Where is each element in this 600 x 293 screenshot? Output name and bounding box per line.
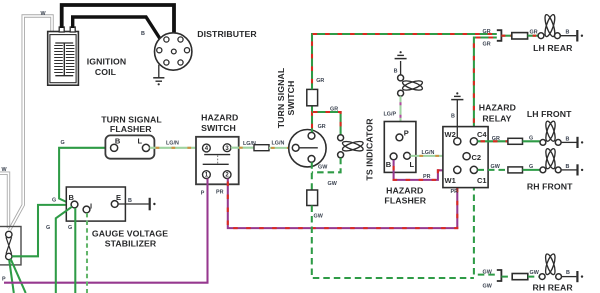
svg-text:PR: PR xyxy=(216,190,224,196)
svg-text:LG/N: LG/N xyxy=(422,150,435,156)
svg-text:G: G xyxy=(52,198,56,204)
svg-text:GW: GW xyxy=(483,269,493,275)
connector (GR inline to LH front) xyxy=(508,138,523,144)
connector (GR inline) xyxy=(512,33,528,39)
svg-text:GW: GW xyxy=(314,213,324,219)
wire GW bracket to connector xyxy=(501,276,512,278)
lamp LH REAR xyxy=(538,14,560,39)
svg-text:G: G xyxy=(529,164,533,170)
svg-text:RELAY: RELAY xyxy=(482,114,511,124)
svg-text:B: B xyxy=(566,136,570,142)
svg-text:GR: GR xyxy=(492,136,500,142)
svg-text:I: I xyxy=(90,202,92,211)
wire GW connector to RH rear lamp xyxy=(528,276,540,278)
ground LH rear xyxy=(577,30,583,42)
fuse xyxy=(6,231,12,259)
svg-text:P: P xyxy=(404,129,409,138)
svg-text:GW: GW xyxy=(491,164,501,170)
svg-text:B: B xyxy=(394,68,398,74)
svg-text:SWITCH: SWITCH xyxy=(201,123,236,133)
wire B LH front lamp to ground xyxy=(561,141,576,143)
svg-text:B: B xyxy=(451,114,455,120)
wire W white from left edge to fuse xyxy=(0,173,9,228)
wire B RH rear lamp to ground xyxy=(562,276,577,278)
hazard switch xyxy=(196,137,239,185)
wire LG stabilizer I down (dashed) xyxy=(86,213,88,293)
connector bracket (two GR into one) xyxy=(497,30,502,41)
svg-text:PR: PR xyxy=(451,189,459,195)
svg-text:GR: GR xyxy=(530,29,538,35)
wire B thick coil to distributor center xyxy=(62,5,174,49)
connector (GR vertical) xyxy=(307,89,318,105)
wire GR relay C4 up and right to bracket xyxy=(474,38,497,138)
wire B LH rear lamp to ground xyxy=(560,35,576,37)
svg-text:GAUGE VOLTAGE: GAUGE VOLTAGE xyxy=(92,229,168,239)
wire GW TS indicator to GW riser xyxy=(312,158,341,173)
ground hazard warning lamp (inverted) xyxy=(395,51,407,58)
ground relay W2 (inverted) xyxy=(451,92,463,99)
ground stabilizer E (bar and dot) xyxy=(150,198,156,211)
svg-text:B: B xyxy=(128,198,132,204)
wire G junction straight down xyxy=(74,208,76,293)
svg-text:P: P xyxy=(2,277,6,283)
wire B hazard warning lamp to ground xyxy=(400,61,402,75)
ground LH front xyxy=(578,137,584,148)
label IGNITION COIL xyxy=(87,56,126,77)
wire B thick coil to distributor side xyxy=(73,17,161,40)
wire LG/N hazard flasher L to relay C2 xyxy=(410,155,463,157)
svg-text:GW: GW xyxy=(483,284,493,290)
label HAZARD SWITCH xyxy=(201,113,238,133)
svg-text:GW: GW xyxy=(530,270,540,276)
wire GW relay C1 down and right to bracket xyxy=(474,174,497,275)
svg-text:B: B xyxy=(566,270,570,276)
lamp RH FRONT xyxy=(540,148,561,173)
svg-text:FLASHER: FLASHER xyxy=(384,196,426,206)
svg-text:W1: W1 xyxy=(445,176,456,185)
wire GR connector up and across top xyxy=(312,34,497,89)
svg-text:G: G xyxy=(46,225,50,231)
svg-text:IGNITION: IGNITION xyxy=(87,56,126,66)
label TURN SIGNAL SWITCH (rotated) xyxy=(276,67,296,128)
svg-text:HAZARD: HAZARD xyxy=(201,113,238,123)
wire PR hazard flasher B to relay W1 xyxy=(394,160,454,180)
svg-text:LG/P: LG/P xyxy=(384,112,397,118)
turn signal switch xyxy=(289,130,326,167)
svg-text:HAZARD: HAZARD xyxy=(386,185,423,195)
wire W white from ignition coil to fuse xyxy=(10,16,53,230)
svg-text:B: B xyxy=(386,160,392,169)
svg-text:GR: GR xyxy=(318,124,326,130)
label GAUGE VOLTAGE STABILIZER xyxy=(92,229,168,249)
wire GW relay C1 to connector xyxy=(478,169,508,171)
svg-text:W2: W2 xyxy=(445,130,456,139)
ground RH rear xyxy=(577,271,583,282)
svg-text:GW: GW xyxy=(328,181,338,187)
wire PR hazard switch 2 to relay W1 xyxy=(228,174,457,229)
svg-text:TURN SIGNAL: TURN SIGNAL xyxy=(276,67,286,128)
lamp RH REAR xyxy=(539,253,561,280)
svg-text:G: G xyxy=(61,140,65,146)
gauge voltage stabilizer xyxy=(66,187,125,221)
svg-text:B: B xyxy=(566,29,570,35)
wire G fuse down-left 1 xyxy=(9,260,14,293)
svg-text:GR: GR xyxy=(483,29,491,35)
svg-text:GR: GR xyxy=(483,41,491,47)
hazard relay xyxy=(443,127,488,188)
wire G fuse to junction (via riser) xyxy=(12,205,71,256)
svg-text:B: B xyxy=(141,31,145,37)
connector (LG/N inline) xyxy=(254,145,269,151)
wire B RH front lamp to ground xyxy=(561,169,576,171)
svg-text:P: P xyxy=(201,191,205,197)
svg-text:B: B xyxy=(69,193,75,202)
svg-text:RH FRONT: RH FRONT xyxy=(527,182,573,192)
ground RH front xyxy=(578,164,584,175)
svg-text:DISTRIBUTER: DISTRIBUTER xyxy=(197,29,257,39)
svg-text:LH REAR: LH REAR xyxy=(533,43,573,53)
svg-text:HAZARD: HAZARD xyxy=(479,103,516,113)
label TURN SIGNAL FLASHER xyxy=(101,114,162,134)
wire G connector to RH front lamp xyxy=(523,169,541,171)
svg-text:SWITCH: SWITCH xyxy=(286,81,296,116)
svg-text:E: E xyxy=(116,193,121,202)
svg-text:C1: C1 xyxy=(477,176,487,185)
svg-text:PR: PR xyxy=(423,174,431,180)
wire LG/N flasher L to hazard switch 4 xyxy=(150,147,203,149)
svg-text:FLASHER: FLASHER xyxy=(110,124,152,134)
svg-text:GW: GW xyxy=(318,164,328,170)
ignition coil xyxy=(48,27,79,85)
svg-text:LG/N: LG/N xyxy=(166,140,179,146)
distributor xyxy=(155,33,192,70)
svg-text:LH FRONT: LH FRONT xyxy=(527,109,572,119)
svg-text:C4: C4 xyxy=(477,130,487,139)
svg-text:G: G xyxy=(529,135,533,141)
wire GR branch to TS indicator xyxy=(312,112,341,135)
wire GR turn signal switch up to connector xyxy=(311,106,313,132)
wire LG/P hazard warning lamp to hazard flasher P xyxy=(399,96,401,134)
svg-text:LG/N: LG/N xyxy=(272,140,285,146)
wire G turn signal flasher B to junction xyxy=(59,148,110,205)
svg-text:GR: GR xyxy=(330,107,338,113)
svg-text:L: L xyxy=(138,136,143,145)
connector (GW vertical) xyxy=(307,190,318,206)
svg-text:STABILIZER: STABILIZER xyxy=(105,239,157,249)
wire GW connector down and across bottom xyxy=(312,206,474,279)
wire GR bracket to connector xyxy=(501,35,511,37)
wire GR relay C4 to connector xyxy=(478,140,508,142)
wire B stabilizer E to ground xyxy=(118,203,149,205)
svg-text:GR: GR xyxy=(316,78,324,84)
wire GW turn signal switch down to connector xyxy=(311,162,313,190)
label HAZARD FLASHER xyxy=(384,185,426,205)
hazard warning lamp xyxy=(398,75,424,96)
svg-text:COIL: COIL xyxy=(95,67,117,77)
svg-text:L: L xyxy=(410,160,415,169)
label HAZARD RELAY xyxy=(479,103,516,124)
wire LG/N connector to turn signal switch xyxy=(269,147,289,149)
svg-text:C2: C2 xyxy=(472,153,482,162)
wire G junction diagonal to lower-left vertical xyxy=(56,207,72,293)
wire P hazard switch 1 to left edge xyxy=(4,179,208,283)
wire B relay W2 to ground xyxy=(456,100,458,138)
svg-text:RH REAR: RH REAR xyxy=(532,283,573,293)
connector (GW inline) xyxy=(512,274,528,280)
hazard flasher xyxy=(384,122,416,173)
turn signal flasher xyxy=(105,135,154,158)
wire G connector to LH front lamp xyxy=(523,140,541,142)
wire LG/N hazard switch 3 to connector xyxy=(231,147,254,149)
svg-text:B: B xyxy=(566,164,570,170)
connector (GW inline to RH front) xyxy=(508,167,523,173)
wire G fuse down-left 2 xyxy=(11,259,26,293)
svg-text:TURN SIGNAL: TURN SIGNAL xyxy=(101,114,162,124)
ground distributor xyxy=(153,65,164,86)
lamp LH FRONT xyxy=(540,120,561,145)
fuse box xyxy=(0,227,21,265)
svg-text:B: B xyxy=(115,137,121,146)
wire GR connector to LH rear lamp xyxy=(528,35,539,37)
TS indicator lamp xyxy=(338,135,365,158)
svg-text:TS INDICATOR: TS INDICATOR xyxy=(365,118,375,181)
connector bracket (two GW into one) xyxy=(497,270,502,281)
svg-text:G: G xyxy=(68,225,72,231)
